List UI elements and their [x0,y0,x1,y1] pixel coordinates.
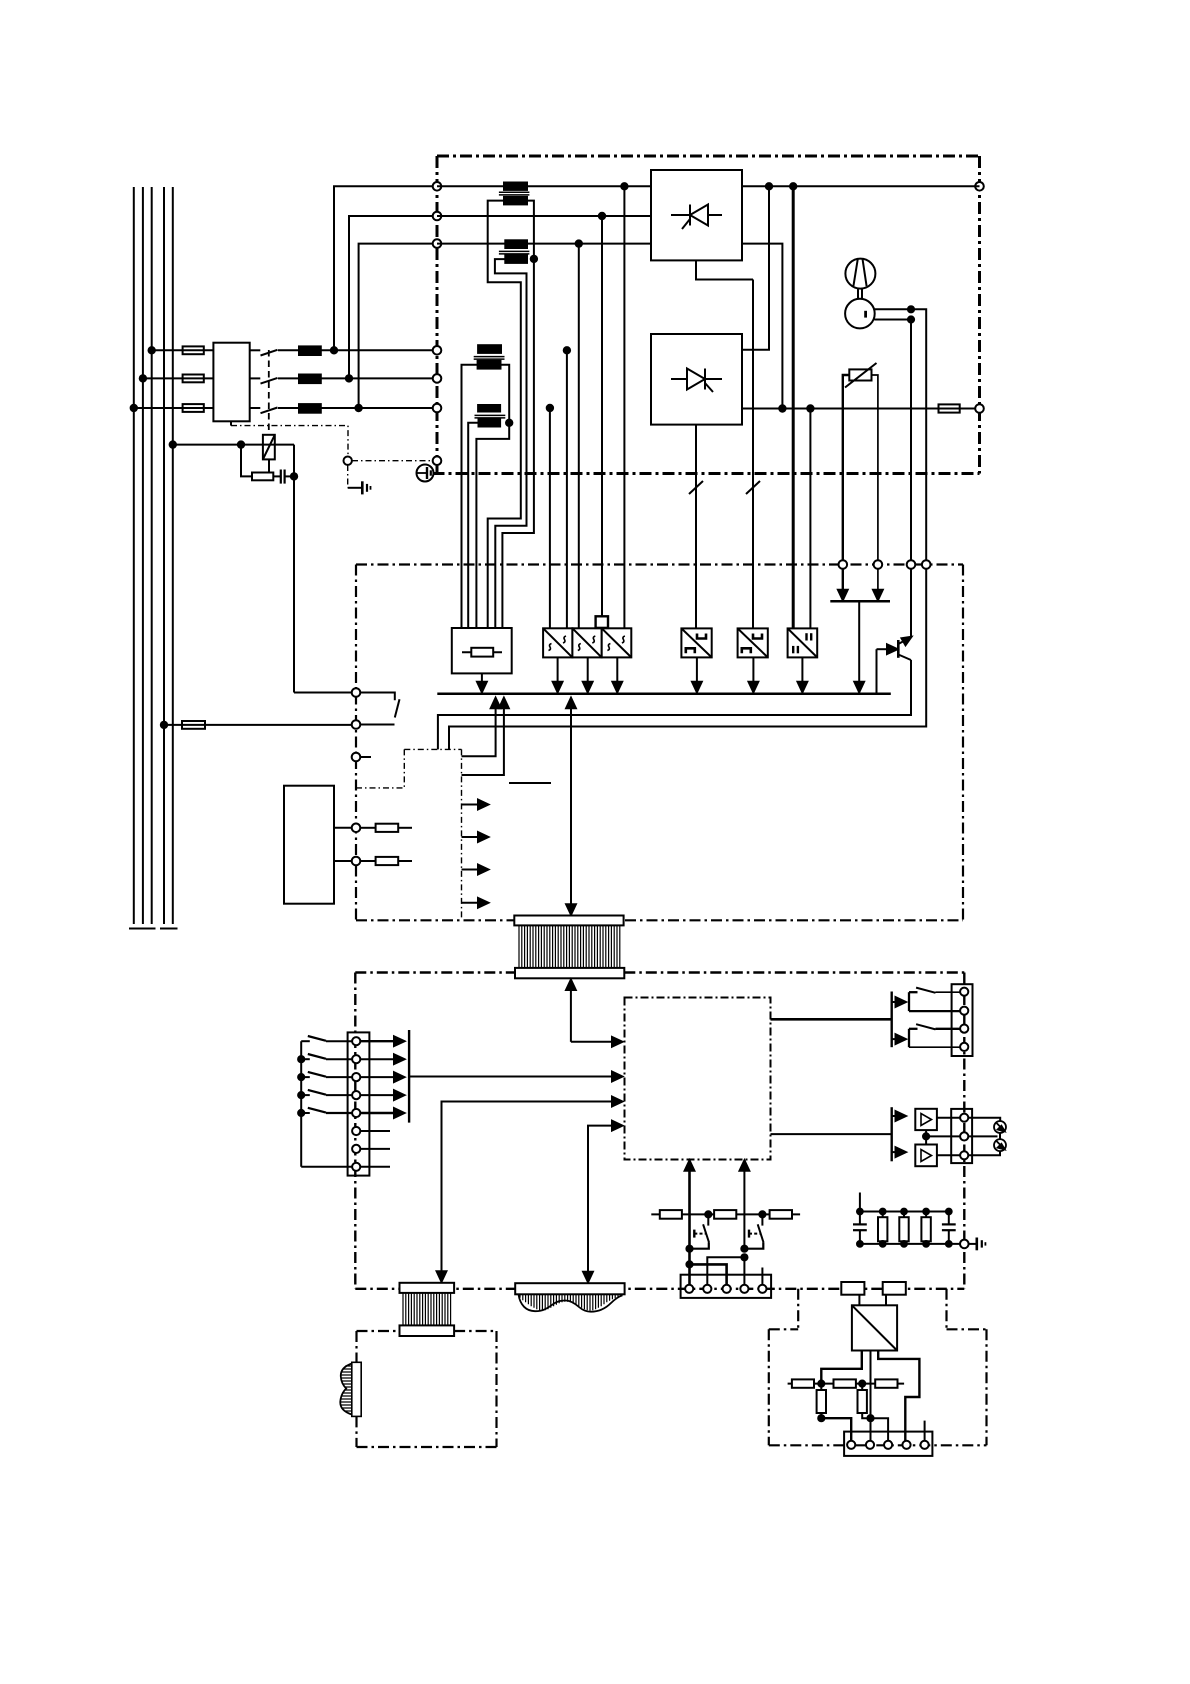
hf resistor rail [788,1383,905,1385]
wire cpu relay output bold [771,1018,892,1021]
wire U7-U8 link [925,1130,927,1144]
node tap phase3 for dcdc1 [547,405,553,411]
wire cpu driver output [771,1133,892,1135]
fuse F6 [360,827,375,829]
wire T4 secondary left [468,423,478,628]
fuse F5 [182,721,205,729]
inductor L3 [299,404,321,413]
ground chassis symbol right [969,1243,976,1245]
transistor Q1 emitter up with arrow [898,639,908,644]
thermal element S7 (bar + dashed link) [693,1230,695,1238]
switch S2 row1 [301,1040,310,1042]
connector X5 wavy hatch [520,1294,621,1311]
switch S6 row5 [301,1112,310,1114]
cpu block A2 (dash-dot) [625,998,771,1160]
node tap N interlock wire [161,722,167,728]
bus end tick group 2 [160,928,178,930]
fan motor shaft [857,288,859,299]
connector X4 hatch [403,1293,451,1326]
wire tap dcdc1 input b [566,350,568,628]
wire V1 phase3 out to lower bus [742,244,782,409]
driver amp U7 [915,1109,937,1130]
wire aux line 1 [334,827,352,829]
rectifier bridge V2 box [651,334,742,425]
contactor K1 mechanical link (dashed) [268,350,270,435]
wire filter a to transformer [858,1295,860,1306]
resistor RII [834,1379,856,1387]
terminal circle varistor a [839,560,848,569]
wire tap dcdc3 input b [623,186,625,628]
cable slash x696 [689,481,703,494]
wire X3 row3 arrow [360,1076,398,1078]
node bus row3 [298,1074,304,1080]
front panel enclosure top border right [624,971,964,973]
current transformer T3 core [474,356,505,358]
fuse F1 [183,346,204,354]
filter bottom rail [860,1243,960,1245]
contactor K1 contact 1 [250,349,261,351]
protective earth circle symbol [417,465,434,482]
wire motor upper terminal [875,309,927,564]
transistor Q1 base line with arrow [877,648,892,650]
adapter box on U3 [596,616,608,628]
wire varistor left down [843,375,850,565]
switch S4 row3 [301,1076,310,1078]
round connector X9 flange bumps with hatch [340,1364,352,1415]
node hf rail a [818,1381,824,1387]
wire T5 out 3 bold staircase [878,1351,919,1441]
wire A1 output arrow to bus [481,673,483,683]
filter resistor R2f [903,1212,905,1218]
filter top rail [860,1211,949,1213]
boundary link to top box corner (fine dash-dot) [352,460,433,462]
thermal element S8 (bar + dashed link) [748,1230,750,1238]
terminal circle aux 2 [352,857,361,866]
inductor L2 [299,375,321,384]
driver arrow 1 [892,1115,900,1117]
front panel enclosure bottom border [355,1288,964,1290]
node V1 out a [766,183,772,189]
wire phase 1 to fuse [152,349,183,351]
wire tap dcdc2 input [578,244,580,629]
wire mains bus L2 [142,187,144,924]
terminal strip X6 [952,984,973,1056]
opto arrow 3 [462,869,483,871]
current transformer T4 primary bar [478,405,500,412]
collector bar [830,600,890,603]
boundary link contactor (fine dash-dot) [231,426,348,456]
wire riser phase2 to top [349,216,437,378]
wire mains bus L3 [151,187,153,924]
dcdc isolation block U3 [602,628,632,657]
terminal circles X3 [352,1037,360,1045]
filter rail nodes [857,1209,863,1215]
control board enclosure right border [962,565,964,921]
control board enclosure left border [355,565,357,921]
connector X8 circles [685,1285,693,1293]
wire bold DC down to pulse block II [792,186,795,628]
ground chassis symbol [348,487,361,489]
node lower bus a [779,405,785,411]
wire riser phase3 to top [359,244,437,408]
node th1 top [705,1211,711,1217]
wire mid route to pin3 [871,1418,889,1440]
fuse F3 [183,404,204,412]
relay contact K3 [909,1024,960,1047]
wire mains bus N [163,187,165,924]
terminal circle motor a [922,560,931,569]
terminal circle interlock a [352,688,361,697]
node V1 out b (bold line) [790,183,796,189]
wire spare stub [360,756,371,758]
wire middle terminal to plug link [968,1135,997,1137]
current transformer T2 primary bar [505,240,527,248]
hf unit enclosure top-left step [769,1328,798,1330]
hf unit enclosure top-right step [947,1328,987,1330]
driver output bar [891,1107,893,1161]
pulse block U5 [738,628,768,657]
node boundary circle [344,457,352,465]
remote panel enclosure top border left [357,1330,400,1332]
wire phase2 top segment [437,215,651,217]
wire spare stub connector [761,1268,763,1289]
wire phase3 top segment [437,243,651,245]
wire hf box corner down a [797,1289,799,1330]
wire U3 output arrow [616,657,618,683]
control board enclosure bottom border right part [625,919,963,921]
wire coil supply from PE bus [173,444,294,446]
wire mains bus L1 [133,187,135,924]
terminal circle varistor b [874,560,883,569]
hf transformer T5 [852,1305,897,1350]
power unit enclosure right border [978,156,981,474]
wire varistor a to bar with arrow [842,569,844,591]
wire x753 down to pulse block 2 [752,280,754,629]
rectifier bridge V1 box [651,170,742,260]
relay contact K2 [909,988,960,1012]
current transformer T2 secondary bar [505,255,527,263]
wire mains bus PE [172,187,174,924]
connector X1 hatch [519,925,620,968]
resistor RV vertical [861,1384,863,1390]
wire riser phase1 to top [334,186,437,350]
wire opto out 2 with up arrow to bus [462,707,504,775]
wire th route a [707,1257,744,1289]
fuse F7 [360,860,375,862]
node motor wire b [908,316,914,322]
wire X3 row4 arrow [360,1094,398,1096]
interlock switch S1 [360,693,395,701]
wire U5 output arrow [752,657,754,683]
wire plug b to terminal [968,1151,1000,1156]
node snubber branch [238,441,244,447]
resistor RIII [875,1379,897,1387]
remote panel enclosure bottom border [357,1446,497,1448]
terminal circle filter ground [960,1240,969,1249]
opto arrow 4 [462,902,483,904]
wire opto out 1 with up arrow to bus [462,707,496,756]
node hf mid [867,1415,873,1421]
optocoupler boundary (fine dash-dot) [356,749,462,920]
wire V1 bottom jog to x753 [696,260,753,279]
front panel enclosure top border left [355,971,514,973]
wire cpu to connector X4 with arrows [442,1102,617,1275]
terminal circle phase3 [433,404,442,413]
node bus row5 [298,1110,304,1116]
connector X5 wavy outline [519,1294,623,1311]
terminal circle motor b [907,560,916,569]
contactor K1 box [213,343,249,422]
terminal circle phase3 top [433,239,442,248]
fuse F4 output [939,404,960,412]
current transformer T3 primary bar [478,345,501,353]
current transformer T2 core [499,250,530,252]
filter capacitor C2f [948,1212,950,1225]
opto arrow 1 [462,804,483,806]
wire th2 down [743,1257,745,1289]
wire into interlock terminal [294,692,352,694]
wire aux line 2 [334,860,352,862]
node hf rail b [859,1381,865,1387]
hf unit enclosure bottom border [769,1444,987,1446]
auxiliary box left [284,786,334,904]
wire X3 row8 [301,1166,352,1168]
wire T2 secondary common down [502,259,534,628]
resistor R snubber [252,473,273,481]
connector X4 ribbon bottom bar [400,1325,455,1336]
node motor wire a [908,306,914,312]
wire phase 3 to fuse [134,407,183,409]
connector X10 circles [847,1441,855,1449]
terminal strip X7 [951,1109,972,1163]
motor M1 [845,299,875,329]
node T3/T4 secondary common [506,420,512,426]
wire bar to gate bus with arrow [858,601,860,683]
capacitor C snubber [280,470,282,484]
wire T3 secondary right (shared) [501,365,510,423]
node tap phase2top for dcdc3 [599,213,605,219]
wire th route b bold [690,1264,727,1288]
filter capacitor C1f [859,1212,861,1225]
dcdc isolation block U2 [572,628,601,657]
wire V2 bottom down to pulse block 1 [695,425,697,629]
bus end tick group 1 [129,928,156,930]
remote panel enclosure left border lower [355,1416,357,1447]
relay arrow 1 [892,1001,900,1003]
wire cpu sense 1 bold [688,1167,691,1250]
wire tap dcdc3 input a [601,216,603,616]
wire Q1 top to motor terminal [910,569,912,637]
current transformer T3 secondary bar [478,361,501,369]
switch S5 row4 [301,1094,310,1096]
connector X5 ribbon bar [515,1283,624,1294]
terminal circle aux 1 [352,824,361,833]
wire X3 row2 arrow [360,1058,398,1060]
wire filter b to transformer [885,1295,887,1306]
wire varistor right down [872,375,878,565]
wire DC to rect2 right port [742,186,769,349]
diode symbol V2 [671,369,722,393]
measuring box A1 (shunt) [452,628,512,673]
wire X1 line to cpu with arrow [571,1041,616,1043]
node riser junction 3 [355,405,361,411]
transistor Q1 bar [897,640,900,658]
wire V1 top output right [742,185,980,187]
terminal circle phase1 [433,346,442,355]
thermal switch S8 [761,1214,763,1225]
resistor Rc [770,1210,792,1219]
resistor RI [792,1379,814,1387]
current transformer T4 core [475,414,506,416]
spark suppressor filter block a [841,1282,864,1295]
remote panel enclosure left border upper [355,1331,357,1362]
terminal circle DC+ right [975,182,984,191]
wire U4 output arrow [696,657,698,683]
inductor L1 [299,346,321,355]
wire stub pin5 [924,1421,926,1441]
wire T5 out 1 bold [821,1351,862,1384]
wire X3 row6 stub [360,1130,390,1132]
wire U2 output arrow [587,657,589,683]
opto arrow 2 [462,836,483,838]
front panel enclosure left border [354,973,356,1289]
filter stub up [859,1193,861,1212]
connector X2 up arrow to X1 [570,987,572,1042]
power unit enclosure bottom border [433,472,980,475]
wire snubber branch down [241,445,252,477]
wire X3 row7 stub [360,1148,390,1150]
node T1/T2 secondary common [531,256,537,262]
wire hf box corner down b [945,1289,947,1330]
wire T3/T4 secondary common down [476,423,509,628]
cable slash x753 [746,481,760,494]
power unit enclosure left border [436,156,439,456]
boundary link down to ground (fine dash-dot) [347,465,349,488]
switch S3 row2 [301,1058,310,1060]
round connector X9 body [352,1362,361,1416]
connector X8 body [681,1275,772,1298]
wire th bold down [688,1250,691,1289]
connector X4 ribbon top bar [400,1283,455,1293]
remote panel enclosure top border right [454,1330,496,1332]
pulse block U4 [681,628,711,657]
node tap phase1 for dcdc1 [564,347,570,353]
wire U8 to terminal [937,1154,960,1156]
node tap L2 phase 2 [140,375,146,381]
node hf low a [818,1415,824,1421]
wire T5 out 2 [870,1351,872,1441]
thermal switch S7 [707,1214,709,1225]
connector X1 ribbon bottom bar [515,968,624,978]
wire to plug contact a [968,1118,1000,1122]
current transformer T4 secondary bar [479,419,501,426]
remote panel enclosure right border [495,1331,497,1447]
wire coil bottom stub [268,459,270,472]
current transformer T1 primary bar [504,183,527,190]
node riser junction 1 [331,347,337,353]
spark suppressor filter block b [883,1282,906,1295]
wire top DC line left segment [437,185,651,187]
resistor Ra [660,1210,682,1219]
wire U7 to terminal [937,1117,960,1119]
filter resistor R1f [882,1212,884,1218]
thyristor symbol V1 [671,205,722,230]
relay arrow 2 [892,1038,900,1040]
node th2 top [759,1211,765,1217]
wire tap dcdc1 input a [549,408,551,628]
power unit enclosure top border (dash-dot) [437,155,980,158]
contactor K1 contact 3 [250,407,261,409]
wire link to middle terminal [926,1135,960,1137]
wire bar to cpu arrow [409,1076,616,1078]
wire X3 row5 arrow bold [360,1112,398,1114]
node riser junction 2 [346,375,352,381]
dcdc isolation block U1 [543,628,572,657]
wire lower bus tap to block II [809,409,811,629]
terminal strip X3 [348,1032,370,1175]
wire Q1 bottom to feedback line [438,660,911,749]
wire phase 2 to fuse [143,377,183,379]
node tap PE coil wire [170,441,176,447]
terminal circle phase2 [433,374,442,383]
current transformer T1 secondary bar [504,197,527,205]
node snubber right [291,473,297,479]
varistor R V [849,369,871,380]
node tap DCline for dcdc3 [621,183,627,189]
thermostat rail [651,1213,800,1215]
wire cpu sense 2 [743,1167,745,1250]
resistor Rb [714,1210,736,1219]
plug contact symbol a [994,1121,1006,1133]
contactor K1 contact 2 [250,377,261,379]
hf unit enclosure left border [768,1329,770,1445]
wire low route to pin1 bold [821,1418,851,1440]
transistor Q1 collector down [898,655,911,661]
resistor RIV vertical [820,1384,822,1390]
wire T3 secondary left [462,365,478,628]
node lower bus b [807,405,813,411]
wire T1 secondary left [488,201,521,628]
current transformer T1 core [499,191,530,193]
wire V2 output lower bus [742,408,939,410]
fan symbol [845,259,875,289]
collector bar inputs [408,1030,410,1123]
wire N fused to interlock [164,724,182,726]
wire varistor b to bar with arrow [877,569,879,591]
relay output bar [891,992,893,1048]
gate bus [437,693,891,696]
fuse F2 [183,375,204,383]
node bus row2 [298,1056,304,1062]
node bus row4 [298,1092,304,1098]
plug contact symbol b [994,1139,1006,1151]
driver arrow 2 [892,1151,900,1153]
front panel enclosure right border [963,973,965,1289]
plug link [999,1133,1001,1140]
hf unit enclosure right border [985,1329,987,1445]
node tap phase3top for dcdc2 [576,240,582,246]
block U6 (II) [788,628,818,657]
terminal circle phase1 top [433,182,442,191]
terminal circle PE corner [433,456,442,465]
wire motor lower terminal [874,320,911,565]
wire X3 row1 arrow [360,1040,398,1042]
driver amp U8 [915,1145,937,1167]
wire U6 output arrow [801,657,803,683]
connector X10 body [844,1432,932,1456]
switch bus left [300,1041,302,1167]
wire bus to connector X1 double arrow [570,707,572,907]
